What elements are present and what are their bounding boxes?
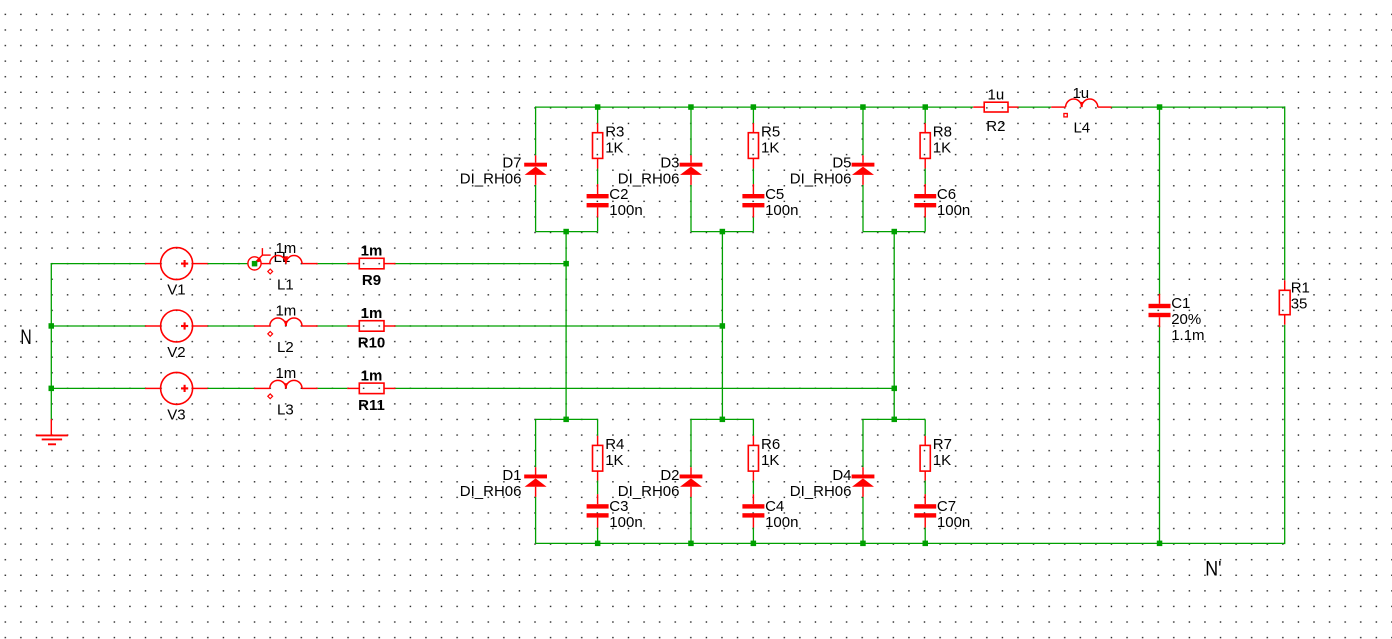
- inductor L1: [268, 240, 318, 294]
- wire C5 to group rail: [752, 218, 754, 232]
- wire L3 to R11: [318, 387, 348, 389]
- svg-text:D4: D4: [832, 467, 851, 484]
- svg-text:R7: R7: [933, 436, 952, 453]
- wire R9 to node A feed: [396, 263, 567, 265]
- wire D5 bottom to group rail: [862, 185, 864, 232]
- svg-text:1m: 1m: [361, 305, 383, 322]
- junction top rail / C1: [1157, 104, 1163, 110]
- svg-text:R1: R1: [1291, 280, 1310, 297]
- resistor R4: [593, 436, 625, 481]
- wire R3 to C2: [597, 169, 599, 185]
- svg-text:D3: D3: [660, 154, 679, 171]
- wire C2 to group rail: [597, 218, 599, 232]
- junction group1 rail / feed A: [563, 229, 569, 235]
- junction top rail / D5: [860, 104, 866, 110]
- svg-text:1K: 1K: [605, 452, 623, 469]
- capacitor C6: [914, 184, 970, 219]
- wire D5 top from rail: [862, 107, 864, 155]
- svg-text:1K: 1K: [605, 139, 623, 156]
- resistor R10: [347, 305, 395, 352]
- svg-text:35: 35: [1291, 296, 1308, 313]
- wire D1 top from group rail: [535, 419, 537, 467]
- wire feed column 3: [893, 232, 895, 420]
- svg-text:N': N': [1205, 557, 1221, 581]
- junction top rail / R8: [923, 104, 929, 110]
- svg-text:1K: 1K: [761, 452, 779, 469]
- wire phase A from bus to V1: [51, 263, 146, 265]
- diode D2: [618, 467, 703, 500]
- svg-text:R6: R6: [761, 436, 780, 453]
- wire top rail left segment: [536, 106, 974, 108]
- capacitor C3: [587, 494, 643, 531]
- wire R7 to C7: [924, 481, 926, 495]
- wire top-bank group 1 bottom rail: [536, 231, 598, 233]
- junction bottom group3 rail / feed C: [892, 417, 898, 423]
- svg-text:100n: 100n: [609, 202, 642, 219]
- wire D3 bottom to group rail: [690, 185, 692, 232]
- wire R10 to node B feed: [396, 325, 723, 327]
- svg-text:D7: D7: [502, 154, 521, 171]
- wire R6 to C4: [752, 481, 754, 495]
- junction bottom rail / C3: [595, 541, 601, 547]
- diode D4: [790, 467, 875, 500]
- junction top rail / D3: [688, 104, 694, 110]
- wire feed column 1: [565, 232, 567, 420]
- junction N bus / phase C: [49, 386, 55, 392]
- resistor R2: [973, 87, 1018, 135]
- inductor L3: [254, 365, 317, 419]
- svg-text:L3: L3: [277, 401, 294, 418]
- inductor L4: [1051, 85, 1111, 137]
- wire D7 bottom to group rail: [535, 185, 537, 232]
- wire R1 bottom to rail corner: [1284, 325, 1286, 544]
- svg-text:1K: 1K: [933, 139, 951, 156]
- wire C1 top from rail: [1159, 107, 1161, 295]
- wire D4 top from group rail: [862, 419, 864, 467]
- wire D1 bottom to bottom rail: [535, 497, 537, 544]
- svg-text:R3: R3: [605, 123, 624, 140]
- wire C6 to group rail: [924, 218, 926, 232]
- junction group3 rail / feed C: [892, 229, 898, 235]
- junction group2 rail / feed B: [720, 229, 726, 235]
- wire C7 to bottom rail: [924, 528, 926, 544]
- wire N bus vertical: [50, 264, 52, 420]
- wire top rail R2-L4 segment: [1019, 106, 1052, 108]
- wire R1 top from rail corner: [1284, 106, 1286, 280]
- svg-text:100n: 100n: [937, 202, 970, 219]
- wire L2 to R10: [318, 325, 348, 327]
- junction bottom rail / D4: [860, 541, 866, 547]
- svg-text:D1: D1: [502, 467, 521, 484]
- svg-text:R8: R8: [933, 123, 952, 140]
- wire R11 to node C feed: [396, 387, 895, 389]
- resistor R7: [920, 436, 952, 481]
- wire D4 bottom to bottom rail: [862, 497, 864, 544]
- wire R3 top lead from rail: [597, 107, 599, 123]
- inductor L2: [254, 303, 317, 357]
- svg-text:L1: L1: [277, 277, 294, 294]
- wire top rail left corner down (D7): [535, 106, 537, 155]
- wire L1 to R9: [318, 263, 348, 265]
- wire top-bank group 2 bottom rail: [691, 231, 753, 233]
- svg-text:DI_RH06: DI_RH06: [460, 170, 522, 187]
- wire D2 top from group rail: [690, 419, 692, 467]
- wire phase C from bus to V3: [51, 387, 146, 389]
- svg-text:1K: 1K: [761, 139, 779, 156]
- wire bottom-bank group 2 top rail: [691, 418, 753, 420]
- svg-text:C1: C1: [1171, 295, 1190, 312]
- svg-text:100n: 100n: [937, 514, 970, 531]
- svg-text:1m: 1m: [361, 243, 383, 260]
- capacitor C1: [1149, 294, 1205, 344]
- junction top rail / R3: [595, 104, 601, 110]
- wire R5 top lead from rail: [752, 107, 754, 123]
- svg-text:R4: R4: [605, 436, 624, 453]
- svg-text:100n: 100n: [765, 202, 798, 219]
- junction bottom group2 rail / feed B: [720, 417, 726, 423]
- svg-text:DI_RH06: DI_RH06: [790, 483, 852, 500]
- wire top-bank group 3 bottom rail: [863, 231, 925, 233]
- svg-text:DI_RH06: DI_RH06: [618, 170, 680, 187]
- wire bottom-bank group 1 top rail: [536, 418, 598, 420]
- svg-text:1m: 1m: [275, 240, 296, 257]
- diode D1: [460, 467, 547, 500]
- svg-text:R11: R11: [358, 397, 385, 414]
- svg-text:L4: L4: [1073, 120, 1090, 137]
- svg-text:DI_RH06: DI_RH06: [790, 170, 852, 187]
- wire R4 to C3: [597, 481, 599, 495]
- wire R6 top lead: [752, 419, 754, 435]
- svg-text:20%: 20%: [1171, 311, 1201, 328]
- capacitor C5: [742, 184, 798, 219]
- wire R8 to C6: [924, 169, 926, 185]
- diode D7: [460, 154, 547, 187]
- junction bottom rail / C1: [1157, 541, 1163, 547]
- svg-text:D5: D5: [832, 154, 851, 171]
- junction top rail / R5: [751, 104, 757, 110]
- junction bottom rail / C4: [751, 541, 757, 547]
- junction bottom rail / D2: [688, 541, 694, 547]
- svg-text:C5: C5: [765, 186, 784, 203]
- svg-text:100n: 100n: [765, 514, 798, 531]
- resistor R8: [920, 123, 952, 168]
- wire bottom rail: [536, 542, 1285, 544]
- svg-text:V1: V1: [167, 282, 185, 299]
- wire C3 to bottom rail: [597, 528, 599, 544]
- resistor R5: [748, 123, 780, 168]
- svg-text:100n: 100n: [609, 514, 642, 531]
- wire R7 top lead: [924, 419, 926, 435]
- junction N bus / phase B: [49, 323, 55, 329]
- svg-text:C7: C7: [937, 498, 956, 515]
- wire V2 to L2: [208, 325, 255, 327]
- wire feed column 2: [721, 232, 723, 420]
- wire R5 to C5: [752, 169, 754, 185]
- junction bottom group1 rail / feed A: [563, 417, 569, 423]
- svg-text:1m: 1m: [275, 303, 296, 320]
- ground: [36, 419, 68, 444]
- resistor R1: [1279, 280, 1310, 325]
- wire V1 to current probe: [208, 263, 248, 265]
- svg-text:D2: D2: [660, 467, 679, 484]
- svg-text:1u: 1u: [988, 87, 1005, 104]
- svg-text:1m: 1m: [361, 368, 383, 385]
- svg-text:R5: R5: [761, 123, 780, 140]
- wire top rail right segment: [1112, 106, 1285, 108]
- svg-text:1u: 1u: [1072, 85, 1089, 102]
- capacitor C7: [914, 494, 970, 531]
- wire C1 bottom to bottom rail: [1159, 326, 1161, 544]
- resistor R3: [593, 123, 625, 168]
- resistor R11: [347, 368, 395, 415]
- diode D5: [790, 154, 875, 187]
- svg-text:1.1m: 1.1m: [1171, 327, 1204, 344]
- svg-text:C3: C3: [609, 498, 628, 515]
- wire D3 top from rail: [690, 107, 692, 155]
- svg-text:1m: 1m: [275, 365, 296, 382]
- svg-text:V3: V3: [167, 406, 185, 423]
- voltage source V1: [145, 248, 207, 299]
- wire R8 top lead from rail: [924, 107, 926, 123]
- svg-text:R9: R9: [362, 272, 381, 289]
- svg-text:DI_RH06: DI_RH06: [460, 483, 522, 500]
- wire D2 bottom to bottom rail: [690, 497, 692, 544]
- junction phase C / feed: [892, 386, 898, 392]
- ammeter current probe LL: [248, 248, 290, 270]
- svg-text:C6: C6: [937, 186, 956, 203]
- junction bottom rail / C7: [923, 541, 929, 547]
- svg-text:R2: R2: [986, 118, 1005, 135]
- resistor R6: [748, 436, 780, 481]
- svg-text:R10: R10: [358, 335, 386, 352]
- voltage source V3: [145, 372, 207, 423]
- svg-text:C4: C4: [765, 498, 784, 515]
- diode D3: [618, 154, 703, 187]
- svg-text:C2: C2: [609, 186, 628, 203]
- svg-text:1K: 1K: [933, 452, 951, 469]
- capacitor C4: [742, 494, 798, 531]
- capacitor C2: [587, 184, 643, 219]
- svg-text:V2: V2: [167, 344, 185, 361]
- wire C4 to bottom rail: [752, 528, 754, 544]
- junction phase A / feed: [563, 261, 569, 267]
- wire V3 to L3: [208, 387, 255, 389]
- wire R4 top lead: [597, 419, 599, 435]
- svg-text:N: N: [20, 324, 31, 348]
- wire bottom-bank group 3 top rail: [863, 418, 925, 420]
- svg-text:L2: L2: [277, 339, 294, 356]
- resistor R9: [347, 243, 395, 290]
- wire phase B from bus to V2: [51, 325, 146, 327]
- voltage source V2: [145, 310, 207, 361]
- junction phase B / feed: [720, 323, 726, 329]
